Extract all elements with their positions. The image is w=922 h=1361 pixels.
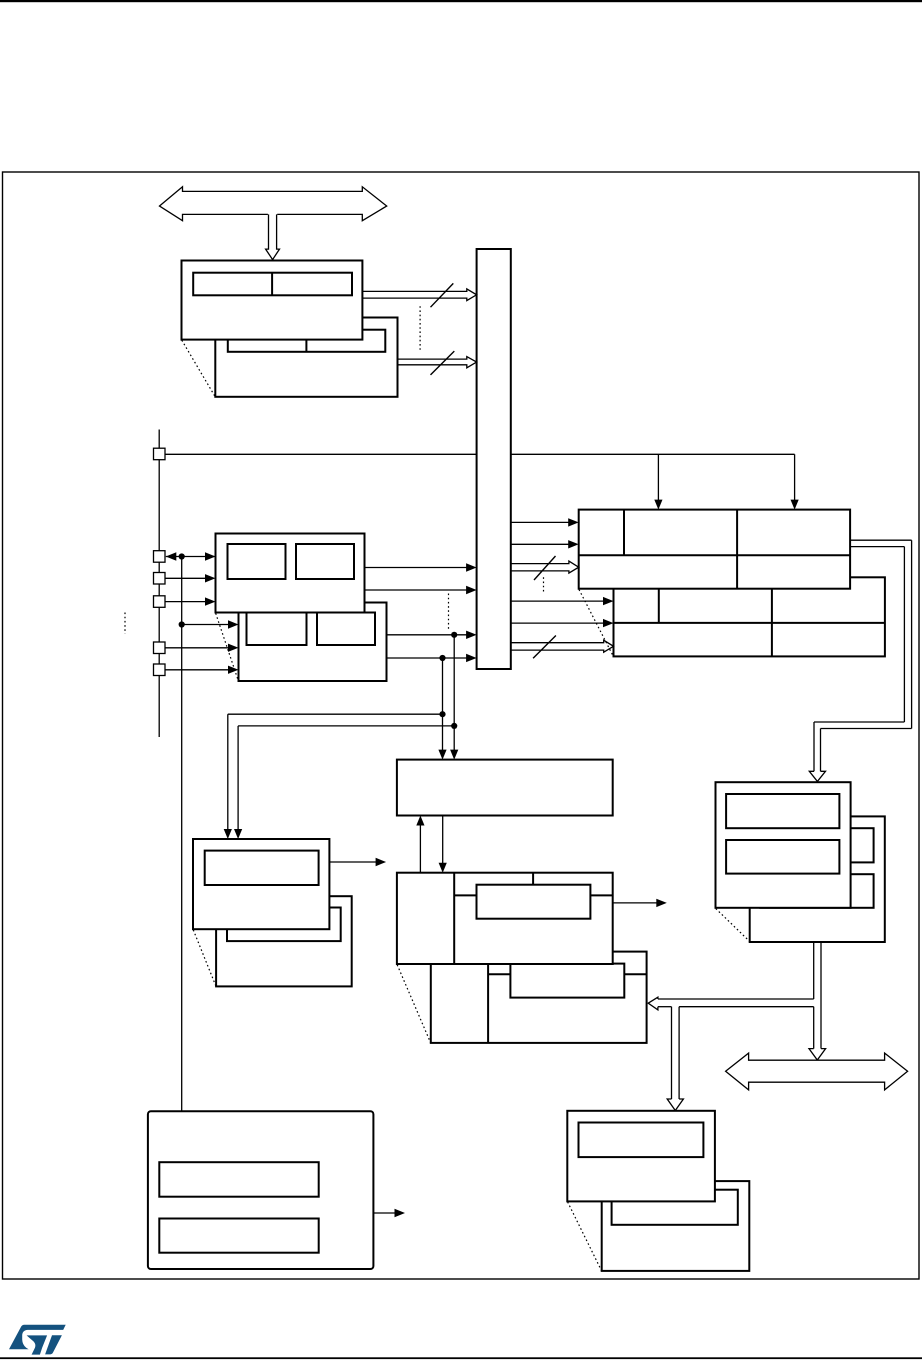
dotted ellipsis below M1 hollow arrow — [543, 577, 545, 592]
hollow bus arrow to M2 — [511, 640, 614, 652]
box D1 (front) — [567, 1111, 715, 1202]
wire tap to C4 — [179, 620, 239, 628]
pin pad P5 — [154, 642, 166, 654]
net down to RAM (left) — [438, 658, 446, 760]
system bus (vertical) — [477, 249, 511, 669]
box K1 (front) — [716, 782, 851, 908]
box F2 (back) — [216, 896, 352, 986]
wire C4 to bus (lower) with junction — [387, 654, 477, 662]
hollow bus arrow to M1 — [511, 561, 579, 573]
long net from pad row to right cluster — [165, 454, 795, 500]
box U1 (front) — [397, 873, 613, 964]
wire C3 to bus (lower) — [365, 586, 477, 594]
net left to flash box (upper branch) — [228, 714, 443, 830]
pin pad P2 — [154, 551, 166, 563]
wire bus to M2 (upper) — [511, 597, 614, 605]
wire P2 to C3 (bidirectional) — [166, 552, 216, 560]
bus-width slash on B2 arrow — [431, 351, 455, 375]
slash on M1 hollow arrow — [534, 556, 556, 580]
dotted shadow edge D1-D2 — [568, 1202, 602, 1271]
bus-width slash on B1 arrow — [431, 283, 454, 307]
wire bus to M1 (lower) — [511, 540, 579, 548]
pin pad P3 — [154, 573, 166, 585]
hollow down arrow into B1 — [266, 214, 280, 259]
wire F1 to CPU cluster — [329, 858, 386, 866]
hollow bus arrow B2 to bus — [398, 357, 477, 368]
net left to flash box (lower branch) — [238, 726, 454, 830]
wire bus to M1 (upper) — [511, 518, 579, 526]
hollow bus arrow B1 to bus — [363, 289, 477, 301]
box M1 (front) — [579, 510, 850, 589]
pin pad P1 — [154, 448, 166, 460]
box B2 (back box behind B1) — [215, 318, 397, 397]
box D2 (back) — [602, 1181, 750, 1271]
wire P5 to C4 — [165, 644, 239, 652]
box M2 (back) — [614, 577, 885, 656]
RAM block — [397, 760, 613, 816]
box C4 (back) — [239, 603, 387, 682]
dotted shadow edge M1-M2 — [579, 590, 613, 657]
pin pad P6 — [154, 664, 166, 676]
dotted shadow edge F1-F2 — [193, 930, 216, 986]
hollow elbow M1 to peripheral cluster — [809, 540, 911, 781]
left pad column vertical line — [158, 430, 160, 738]
box C3 (front) — [216, 534, 365, 613]
box K2 (back) — [750, 816, 885, 942]
dotted shadow edge B1-B2 — [182, 340, 215, 396]
bottom footer rule — [0, 1357, 922, 1359]
vertical net from P2 tap down to bottom box — [181, 557, 183, 1112]
wire U1 to right — [613, 899, 667, 907]
net down to RAM (right) — [450, 635, 458, 760]
box U2 (back) — [431, 952, 647, 1043]
dotted ellipsis between C3/C4 bus wires — [448, 594, 450, 631]
box F1 (front) — [193, 839, 329, 929]
wire G1 to right — [373, 1209, 405, 1217]
wire P4 to C3 — [165, 597, 216, 605]
wire P3 to C3 — [165, 574, 216, 582]
hollow trunk from K2 down with branches — [648, 942, 825, 1111]
dotted shadow edge C3-C4 — [216, 613, 239, 680]
top header rule — [0, 0, 922, 2]
dotted ellipsis in pad column — [124, 613, 126, 634]
wire P6 to C4 — [165, 666, 239, 674]
wire C3 to bus (upper) — [365, 563, 477, 571]
dotted shadow edge U1-U2 — [397, 965, 430, 1043]
bidirectional bus arrow (bottom right) — [726, 1053, 908, 1090]
wire bus to M2 (lower) — [511, 619, 614, 627]
wire C4 to bus (upper) with junction — [387, 631, 477, 639]
wire RAM down-arrow into CPU — [439, 816, 447, 873]
arrowhead into M1 top (left branch) — [654, 500, 662, 510]
dotted shadow edge K1-K2 — [716, 909, 750, 942]
slash on M2 hollow arrow — [533, 636, 556, 659]
wire RAM up-arrow — [416, 816, 424, 873]
dotted ellipsis between bus arrows — [419, 306, 421, 352]
ST logo — [9, 1325, 66, 1355]
pin pad P4 — [154, 596, 166, 608]
arrowhead into M1 top (right branch) — [791, 500, 799, 510]
box B1 (front box) — [182, 261, 363, 340]
bidirectional bus arrow (top) — [160, 187, 387, 221]
